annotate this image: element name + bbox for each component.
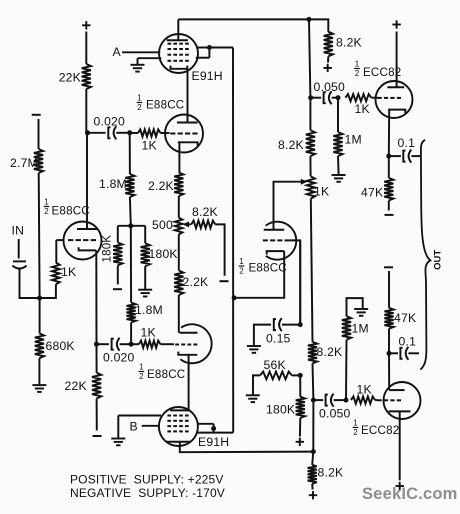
svg-text:E88CC: E88CC bbox=[147, 368, 185, 381]
tube V8 plate bbox=[389, 389, 404, 391]
svg-text:1.8M: 1.8M bbox=[135, 303, 163, 317]
svg-text:1: 1 bbox=[137, 94, 142, 103]
resistor 1K grid lower bbox=[139, 326, 161, 348]
resistor 22K upper-left bbox=[59, 64, 91, 89]
tube V7 cathode bbox=[388, 110, 405, 114]
wire bbox=[160, 343, 174, 345]
wire bbox=[130, 323, 132, 345]
tube V5 grid dashes bbox=[263, 239, 290, 241]
capacitor 0.1 upper bbox=[389, 136, 421, 163]
svg-text:1M: 1M bbox=[352, 322, 369, 336]
resistor 2.2K lower bbox=[174, 271, 208, 296]
tube V8 grid dashes bbox=[378, 399, 402, 401]
svg-text:0.020: 0.020 bbox=[94, 115, 126, 129]
label 1/2ECC82 V8 bbox=[353, 419, 400, 437]
resistor 1.8M lower bbox=[127, 303, 163, 323]
svg-text:E88CC: E88CC bbox=[249, 262, 287, 275]
wire bbox=[309, 156, 311, 176]
resistor 1M lower bbox=[342, 298, 369, 400]
wire bbox=[196, 47, 209, 49]
tube V8 cathode bbox=[389, 410, 411, 412]
wire bbox=[38, 173, 41, 298]
wire bbox=[38, 119, 40, 149]
supply + terminal (8.2K bottom) bbox=[309, 491, 317, 499]
svg-text:SeekIC.com: SeekIC.com bbox=[362, 485, 458, 503]
wire bbox=[18, 239, 20, 259]
capacitor input coupling bbox=[12, 261, 26, 268]
tube V5 1/2E88CC envelope bbox=[266, 222, 297, 260]
tube V4 cathode bbox=[178, 352, 197, 355]
supply - terminal (47K upper) bbox=[385, 214, 394, 216]
svg-text:ECC82: ECC82 bbox=[363, 66, 401, 79]
tube V6 plate bbox=[167, 442, 313, 452]
resistor 8.2K lower-mid bbox=[308, 342, 342, 363]
wire bbox=[85, 32, 87, 65]
wire bbox=[209, 47, 233, 49]
wire bbox=[178, 196, 180, 218]
label positive supply bbox=[70, 473, 224, 487]
tube V2 grid dashes bbox=[170, 133, 197, 135]
wire bbox=[187, 69, 189, 123]
resistor 8.2K wiper bbox=[191, 205, 218, 228]
supply - terminal (8.2K wiper) bbox=[220, 280, 229, 282]
wire bbox=[40, 284, 56, 298]
resistor 1K grid upper bbox=[138, 129, 161, 152]
ground (V3) bbox=[131, 65, 145, 72]
node grid V4 junction bbox=[129, 342, 134, 347]
resistor 180K left bbox=[102, 235, 123, 266]
svg-text:0.050: 0.050 bbox=[319, 407, 351, 421]
wire bbox=[120, 343, 132, 345]
wire bbox=[117, 226, 119, 243]
tube V6 E91H bottom envelope bbox=[159, 407, 198, 446]
label IN bbox=[12, 224, 25, 238]
tube V7 grid dashes bbox=[378, 97, 402, 99]
svg-text:IN: IN bbox=[12, 224, 25, 238]
wire bbox=[312, 363, 315, 400]
wire bbox=[290, 240, 301, 324]
wire bbox=[309, 98, 311, 131]
svg-text:2.7M: 2.7M bbox=[10, 156, 38, 170]
resistor 22K lower-left bbox=[65, 373, 102, 399]
wire bbox=[130, 132, 138, 134]
svg-text:1K: 1K bbox=[61, 265, 76, 279]
label 1/2E88CC V1 bbox=[44, 198, 90, 218]
svg-text:2: 2 bbox=[44, 207, 49, 216]
svg-text:8.2K: 8.2K bbox=[317, 345, 343, 359]
supply - terminal (180K left) bbox=[113, 288, 122, 290]
svg-text:1K: 1K bbox=[142, 139, 157, 153]
node bias junction bbox=[128, 223, 133, 228]
tube V4 1/2E88CC envelope bbox=[180, 324, 211, 363]
svg-text:500: 500 bbox=[152, 218, 173, 232]
node 0.050 lower right bbox=[344, 398, 349, 403]
wire bbox=[388, 110, 390, 157]
supply + terminal (V7 plate) bbox=[392, 20, 400, 28]
label 1/2E88CC V5 bbox=[239, 257, 287, 275]
wire bbox=[388, 329, 390, 354]
svg-text:22K: 22K bbox=[59, 71, 81, 85]
wire bbox=[96, 399, 98, 431]
svg-text:0.1: 0.1 bbox=[399, 335, 417, 349]
wire bbox=[20, 269, 40, 298]
resistor 180K mid bbox=[141, 243, 178, 266]
wire bbox=[337, 156, 340, 174]
resistor 1K grid ECC82 bottom bbox=[351, 383, 375, 404]
tube V6 cathode bbox=[171, 408, 189, 410]
resistor 1M upper bbox=[333, 98, 361, 156]
wire bbox=[215, 224, 224, 275]
label 1/2E88CC V4 bbox=[139, 363, 186, 381]
wire bbox=[311, 484, 313, 490]
svg-text:1: 1 bbox=[44, 198, 49, 207]
svg-text:1.8M: 1.8M bbox=[99, 177, 127, 191]
svg-text:0.050: 0.050 bbox=[314, 80, 346, 94]
tube V8 1/2ECC82 envelope bbox=[384, 382, 421, 419]
wire bbox=[312, 400, 314, 452]
tube V1 grid dashes bbox=[68, 239, 96, 241]
tube V3 cathode bbox=[171, 66, 188, 69]
supply - terminal (47K lower) bbox=[384, 266, 393, 268]
node top bus bbox=[307, 17, 312, 22]
wire bbox=[309, 19, 310, 97]
svg-text:0.1: 0.1 bbox=[398, 136, 416, 150]
svg-text:1K: 1K bbox=[314, 185, 329, 199]
supply + terminal (8.2K top-right) bbox=[324, 64, 332, 72]
svg-text:8.2K: 8.2K bbox=[336, 36, 362, 50]
node cathode V5 bus bbox=[232, 295, 237, 300]
svg-text:1M: 1M bbox=[345, 133, 362, 147]
wire bbox=[144, 226, 146, 244]
svg-text:A: A bbox=[113, 45, 122, 59]
label E91H top bbox=[192, 69, 223, 83]
wire bbox=[388, 271, 390, 308]
label 1/2ECC82 V7 bbox=[354, 60, 401, 79]
node OUT brace bbox=[420, 140, 443, 370]
tube V3 E91H top envelope bbox=[159, 34, 198, 73]
svg-text:ECC82: ECC82 bbox=[361, 424, 399, 437]
wire bbox=[299, 375, 301, 396]
wire bbox=[311, 199, 313, 342]
tube V4 plate bbox=[180, 332, 198, 334]
node plate V8 junction bbox=[387, 351, 392, 356]
label 1/2E88CC V2 bbox=[137, 94, 185, 112]
wire bbox=[116, 132, 129, 134]
capacitor C2 0.020 lower bbox=[103, 338, 135, 365]
svg-text:1: 1 bbox=[353, 419, 358, 428]
tube V1 1/2E88CC envelope bbox=[64, 222, 102, 260]
wire bbox=[118, 225, 145, 227]
wire screen bus bbox=[232, 48, 234, 433]
svg-text:1K: 1K bbox=[141, 326, 156, 340]
resistor 2.7M bbox=[10, 149, 43, 173]
tube V7 1/2ECC82 envelope bbox=[376, 81, 413, 118]
wire bbox=[130, 226, 132, 303]
wire bbox=[371, 97, 377, 99]
tube V6 grid dashes bbox=[167, 416, 188, 432]
wire bbox=[196, 432, 233, 434]
resistor 8.2K mid bbox=[278, 130, 315, 156]
node grid V2 junction bbox=[127, 130, 132, 135]
svg-text:POSITIVE SUPPLY: +225V: POSITIVE SUPPLY: +225V bbox=[70, 473, 224, 487]
wire bbox=[161, 132, 170, 134]
wire bbox=[117, 265, 119, 284]
pot 500 wiper arrow bbox=[183, 221, 192, 227]
potentiometer 500 bbox=[152, 218, 182, 235]
tube V2 1/2E88CC envelope bbox=[165, 115, 203, 153]
svg-text:B: B bbox=[130, 420, 138, 434]
tube V3 grid dashes bbox=[168, 44, 189, 61]
tube V5 cathode bbox=[267, 251, 285, 254]
ground (0.15) bbox=[247, 346, 261, 353]
label negative supply bbox=[70, 486, 225, 500]
wire bbox=[118, 416, 161, 438]
resistor 47K lower bbox=[384, 308, 416, 329]
svg-text:0.020: 0.020 bbox=[103, 351, 135, 365]
node 0.050 upper left bbox=[308, 95, 313, 100]
wire bbox=[327, 56, 329, 62]
wire top bus bbox=[178, 19, 328, 31]
svg-text:2.2K: 2.2K bbox=[148, 179, 174, 193]
svg-text:2: 2 bbox=[239, 266, 244, 275]
supply + terminal (V8 cathode) bbox=[396, 482, 404, 490]
node screen V6 bbox=[211, 426, 216, 431]
svg-text:8.2K: 8.2K bbox=[278, 138, 304, 152]
wire bbox=[178, 142, 180, 172]
svg-text:1: 1 bbox=[139, 363, 144, 372]
tube V7 plate bbox=[387, 86, 404, 88]
capacitor C1 0.020 upper bbox=[94, 115, 126, 140]
node input junction bbox=[37, 296, 42, 301]
capacitor 0.050 upper bbox=[311, 80, 345, 104]
wire bbox=[144, 266, 146, 289]
node cathode V1 junction bbox=[94, 342, 99, 347]
wire bbox=[95, 250, 97, 344]
wire bbox=[85, 89, 87, 133]
resistor 680K bbox=[35, 333, 75, 358]
capacitor 0.1 lower bbox=[389, 335, 419, 360]
capacitor 0.15 bbox=[254, 318, 300, 345]
svg-text:2.2K: 2.2K bbox=[183, 275, 209, 289]
svg-text:180K: 180K bbox=[149, 247, 178, 261]
svg-text:2: 2 bbox=[355, 69, 360, 78]
ground (1M lower) bbox=[354, 309, 368, 316]
svg-text:2: 2 bbox=[137, 103, 142, 112]
svg-text:E91H: E91H bbox=[192, 69, 223, 83]
wire bbox=[197, 424, 214, 433]
wire bbox=[56, 240, 64, 263]
resistor 1.8M upper bbox=[99, 174, 135, 197]
tube V1 plate bbox=[77, 133, 97, 229]
svg-text:E91H: E91H bbox=[198, 435, 229, 449]
wire bbox=[131, 343, 139, 345]
tube V1 cathode bbox=[79, 247, 97, 250]
svg-text:E88CC: E88CC bbox=[52, 205, 90, 218]
wire bbox=[188, 355, 190, 411]
svg-text:680K: 680K bbox=[46, 339, 75, 353]
wire bbox=[375, 399, 377, 401]
svg-text:NEGATIVE SUPPLY: -170V: NEGATIVE SUPPLY: -170V bbox=[70, 486, 225, 500]
wire bbox=[86, 132, 105, 134]
ground (V6) bbox=[111, 439, 125, 446]
wire bbox=[138, 58, 162, 64]
tube V2 cathode bbox=[178, 142, 198, 146]
node 0.15 junction bbox=[298, 322, 303, 327]
wire bbox=[178, 295, 180, 333]
ground (1M upper) bbox=[332, 175, 346, 182]
supply - terminal (22K lower) bbox=[93, 435, 102, 437]
wire bbox=[299, 240, 301, 324]
svg-text:E88CC: E88CC bbox=[146, 99, 184, 112]
resistor 2.2K upper bbox=[148, 173, 183, 197]
resistor 47K upper bbox=[361, 156, 393, 210]
capacitor 0.050 lower bbox=[313, 394, 350, 421]
svg-text:180K: 180K bbox=[266, 403, 295, 417]
node plate V1 junction bbox=[85, 130, 90, 135]
svg-text:1K: 1K bbox=[357, 383, 372, 397]
svg-text:8.2K: 8.2K bbox=[318, 466, 344, 480]
node A bbox=[113, 45, 161, 59]
svg-text:1: 1 bbox=[239, 257, 244, 266]
wire bbox=[234, 251, 284, 298]
wire bbox=[38, 358, 40, 385]
potentiometer 1K bbox=[307, 176, 330, 198]
svg-text:2: 2 bbox=[139, 372, 144, 381]
svg-text:56K: 56K bbox=[264, 358, 286, 372]
node B bbox=[130, 420, 160, 434]
svg-text:1K: 1K bbox=[355, 102, 370, 116]
supply + terminal (180K right) bbox=[296, 438, 304, 446]
supply - terminal (2.7M top) bbox=[32, 114, 41, 116]
wire bbox=[299, 418, 301, 437]
node 56K junction bbox=[298, 373, 303, 378]
svg-text:180K: 180K bbox=[102, 235, 114, 263]
tube V3 plate bbox=[167, 19, 188, 40]
tube V5 plate bbox=[264, 182, 303, 230]
ground (56K) bbox=[246, 395, 260, 402]
label E91H bottom bbox=[198, 435, 229, 449]
wire bbox=[396, 32, 398, 88]
label watermark bbox=[362, 485, 458, 503]
svg-text:47K: 47K bbox=[361, 186, 383, 200]
svg-text:OUT: OUT bbox=[432, 250, 443, 270]
resistor 180K right bbox=[266, 397, 305, 418]
wire bbox=[96, 344, 98, 373]
svg-text:0.15: 0.15 bbox=[266, 332, 291, 346]
wire bbox=[399, 411, 401, 480]
resistor 1K grid ECC82 top bbox=[345, 94, 371, 116]
pot 1K wiper arrow bbox=[301, 179, 308, 185]
wire bbox=[129, 197, 132, 226]
wire bbox=[312, 452, 313, 465]
tube V4 grid dashes bbox=[175, 344, 197, 346]
node 0.050 upper right bbox=[336, 95, 341, 100]
wire bbox=[97, 343, 109, 345]
resistor 1K cathode-grid bbox=[52, 263, 76, 285]
svg-text:47K: 47K bbox=[394, 311, 416, 325]
wire bbox=[196, 48, 210, 58]
svg-text:2: 2 bbox=[353, 428, 358, 437]
wire bbox=[39, 298, 41, 333]
svg-text:22K: 22K bbox=[65, 379, 87, 393]
node output bus bottom bbox=[311, 449, 316, 454]
resistor 8.2K bottom bbox=[308, 465, 344, 484]
supply + terminal (22K top) bbox=[82, 21, 90, 29]
ground (180K mid) bbox=[138, 290, 152, 297]
ground (680K) bbox=[32, 385, 46, 392]
node cathode V7 junction bbox=[386, 154, 391, 159]
wire bbox=[129, 133, 131, 174]
svg-text:1: 1 bbox=[355, 60, 360, 69]
resistor 8.2K top-right bbox=[324, 32, 362, 57]
node screen V3 bbox=[207, 45, 212, 50]
wire bbox=[388, 353, 390, 390]
resistor 56K bbox=[253, 358, 300, 395]
svg-text:8.2K: 8.2K bbox=[192, 205, 218, 219]
wire bbox=[178, 235, 180, 271]
tube V2 plate bbox=[177, 122, 198, 124]
node 0.050 lower left bbox=[311, 398, 316, 403]
